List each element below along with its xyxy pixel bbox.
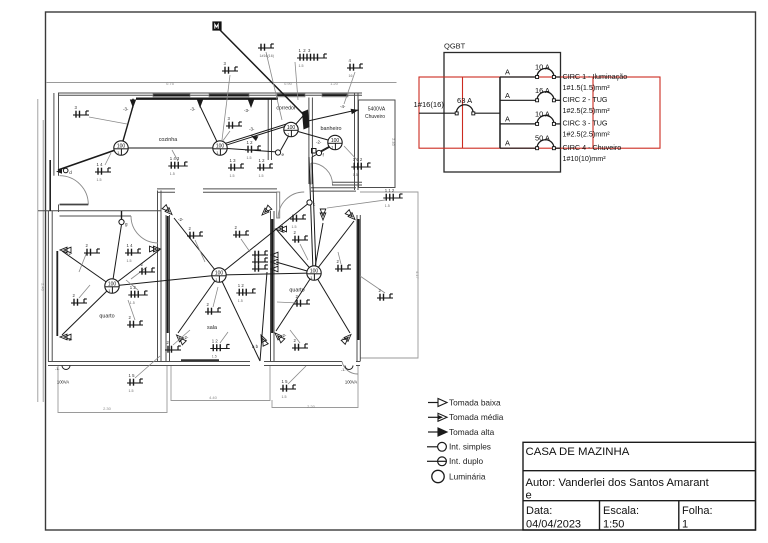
- svg-text:1: 1: [682, 519, 688, 531]
- svg-text:Tomada média: Tomada média: [449, 412, 504, 422]
- svg-text:100VA: 100VA: [345, 380, 357, 385]
- svg-text:-2-: -2-: [281, 333, 287, 338]
- svg-text:-2-: -2-: [67, 251, 73, 256]
- svg-text:1#10(10)mm²: 1#10(10)mm²: [563, 154, 607, 163]
- svg-text:Autor: Vanderlei dos Santos Am: Autor: Vanderlei dos Santos Amarant: [526, 477, 710, 489]
- svg-text:1 1 2: 1 1 2: [385, 188, 395, 193]
- svg-text:Tomada baixa: Tomada baixa: [449, 397, 501, 407]
- svg-text:Escala:: Escala:: [603, 505, 639, 517]
- svg-text:1#2.5(2.5)mm²: 1#2.5(2.5)mm²: [563, 130, 611, 139]
- svg-text:A: A: [505, 114, 510, 123]
- svg-text:5400VA: 5400VA: [368, 107, 386, 113]
- svg-text:100: 100: [287, 125, 296, 131]
- svg-text:Int. duplo: Int. duplo: [449, 456, 484, 466]
- svg-text:1#2.5(2.5)mm²: 1#2.5(2.5)mm²: [563, 106, 611, 115]
- svg-text:50 A: 50 A: [535, 134, 550, 143]
- svg-text:sala: sala: [207, 325, 217, 331]
- svg-text:A: A: [505, 68, 510, 77]
- svg-text:A: A: [505, 91, 510, 100]
- svg-text:100: 100: [216, 144, 225, 150]
- svg-text:10 A: 10 A: [535, 63, 550, 72]
- svg-text:-4-: -4-: [340, 104, 346, 109]
- svg-text:1.20: 1.20: [330, 81, 339, 86]
- svg-text:16: 16: [349, 74, 353, 78]
- svg-text:100: 100: [310, 269, 319, 275]
- svg-text:CIRC 1 - Iluminação: CIRC 1 - Iluminação: [563, 72, 628, 81]
- svg-text:e: e: [526, 490, 532, 502]
- svg-text:1 4 3: 1 4 3: [170, 156, 180, 161]
- svg-text:1 2: 1 2: [130, 285, 137, 290]
- svg-text:1 5: 1 5: [282, 379, 289, 384]
- svg-text:63 A: 63 A: [457, 96, 473, 105]
- svg-text:a b: a b: [252, 344, 259, 349]
- svg-text:2.30: 2.30: [103, 406, 112, 411]
- svg-text:Chuveiro: Chuveiro: [365, 114, 385, 120]
- svg-text:1.5: 1.5: [299, 64, 304, 68]
- svg-text:1 4: 1 4: [97, 162, 104, 167]
- svg-text:1.5: 1.5: [385, 204, 390, 208]
- svg-text:1 3: 1 3: [230, 158, 237, 163]
- svg-text:16 A: 16 A: [535, 86, 550, 95]
- svg-text:2.40: 2.40: [391, 138, 396, 147]
- svg-text:1.5: 1.5: [97, 178, 102, 182]
- svg-text:-3-: -3-: [244, 108, 250, 113]
- svg-text:Int. simples: Int. simples: [449, 442, 491, 452]
- svg-text:1#16(16): 1#16(16): [260, 54, 274, 58]
- svg-text:1 2: 1 2: [212, 338, 219, 343]
- svg-text:quarto: quarto: [99, 314, 114, 320]
- svg-text:100VA: 100VA: [57, 380, 69, 385]
- svg-text:-2-: -2-: [281, 229, 287, 234]
- svg-text:1 5: 1 5: [129, 373, 136, 378]
- svg-text:CIRC 2 - TUG: CIRC 2 - TUG: [563, 95, 608, 104]
- svg-text:1.5: 1.5: [353, 173, 358, 177]
- svg-text:A: A: [505, 139, 510, 148]
- svg-text:1 1 2: 1 1 2: [353, 157, 363, 162]
- svg-text:-2-: -2-: [342, 336, 348, 341]
- svg-text:4.17: 4.17: [415, 271, 420, 280]
- svg-text:CASA DE MAZINHA: CASA DE MAZINHA: [526, 446, 630, 458]
- svg-text:banheiro: banheiro: [321, 126, 342, 132]
- svg-text:0.75: 0.75: [166, 81, 175, 86]
- svg-text:100: 100: [331, 138, 340, 144]
- svg-text:-3-: -3-: [249, 127, 255, 132]
- svg-text:-2-: -2-: [67, 337, 73, 342]
- svg-text:1 2: 1 2: [247, 140, 254, 145]
- svg-text:1.5: 1.5: [127, 259, 132, 263]
- svg-text:CIRC 3 - TUG: CIRC 3 - TUG: [563, 119, 608, 128]
- svg-text:cozinha: cozinha: [159, 137, 178, 143]
- svg-text:1.5: 1.5: [130, 301, 135, 305]
- svg-text:100: 100: [108, 282, 117, 288]
- svg-text:2.40: 2.40: [41, 283, 46, 292]
- svg-text:1 4: 1 4: [127, 243, 134, 248]
- svg-text:Folha:: Folha:: [682, 505, 713, 517]
- svg-text:Luminária: Luminária: [449, 471, 486, 481]
- svg-text:1#16(16): 1#16(16): [414, 100, 445, 109]
- svg-text:1.5: 1.5: [129, 389, 134, 393]
- svg-text:1.5: 1.5: [292, 225, 297, 229]
- svg-text:0.90: 0.90: [284, 81, 293, 86]
- svg-text:1 2 3: 1 2 3: [299, 48, 312, 53]
- svg-text:1.5: 1.5: [259, 174, 264, 178]
- svg-text:1.5: 1.5: [282, 395, 287, 399]
- svg-text:1.5: 1.5: [230, 174, 235, 178]
- svg-text:Tomada alta: Tomada alta: [449, 427, 495, 437]
- svg-text:CIRC 4 - Chuveiro: CIRC 4 - Chuveiro: [563, 143, 622, 152]
- svg-text:100: 100: [215, 271, 224, 277]
- svg-text:Data:: Data:: [526, 505, 552, 517]
- svg-text:10 A: 10 A: [535, 109, 550, 118]
- svg-text:-2-: -2-: [178, 217, 184, 222]
- svg-text:-3-: -3-: [123, 107, 129, 112]
- svg-text:100: 100: [117, 144, 126, 150]
- svg-text:1#1.5(1.5)mm²: 1#1.5(1.5)mm²: [563, 83, 611, 92]
- svg-text:1.5: 1.5: [170, 172, 175, 176]
- svg-text:4.40: 4.40: [209, 395, 218, 400]
- svg-text:1:50: 1:50: [603, 519, 624, 531]
- svg-text:quarto: quarto: [289, 288, 304, 294]
- svg-text:2.20: 2.20: [307, 404, 316, 409]
- svg-text:-3-: -3-: [190, 107, 196, 112]
- svg-text:1 2: 1 2: [259, 158, 266, 163]
- svg-text:1 2: 1 2: [238, 283, 245, 288]
- svg-text:1.5: 1.5: [247, 156, 252, 160]
- svg-text:-2-: -2-: [316, 140, 322, 145]
- svg-text:QGBT: QGBT: [444, 42, 466, 51]
- svg-text:1.5: 1.5: [238, 299, 243, 303]
- svg-text:1.5: 1.5: [212, 354, 217, 358]
- svg-text:corredor: corredor: [276, 106, 296, 112]
- svg-text:04/04/2023: 04/04/2023: [526, 519, 581, 531]
